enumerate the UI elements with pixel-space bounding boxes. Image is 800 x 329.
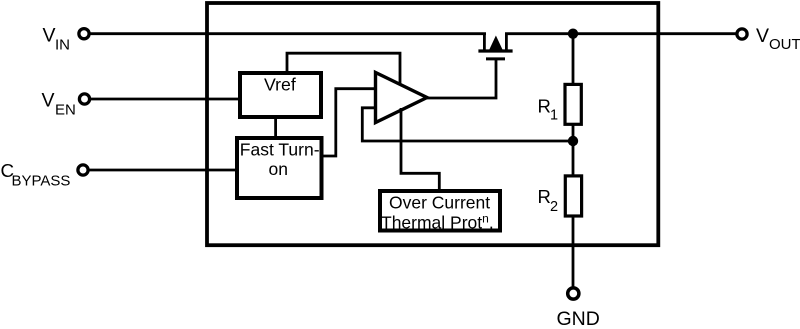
svg-text:Over Current: Over Current: [389, 193, 490, 213]
node VOUT junction dot: [568, 29, 578, 39]
wire op-amp output to gate: [425, 58, 496, 98]
resistor R2: [565, 176, 581, 216]
svg-text:V: V: [756, 25, 769, 47]
node feedback junction dot: [568, 136, 578, 146]
transistor Q1 PMOS pass element: [478, 33, 512, 59]
wire Vref to Fast Turn-on: [274, 117, 277, 140]
channel bar: [478, 49, 512, 52]
svg-text:R: R: [538, 96, 551, 117]
terminal VEN: [79, 94, 89, 104]
svg-text:EN: EN: [55, 101, 76, 118]
wire R2 to GND: [572, 216, 575, 288]
svg-text:2: 2: [550, 199, 558, 215]
wire CBYPASS: [88, 169, 237, 172]
body arrow: [489, 36, 503, 51]
wire VIN rail: [89, 32, 486, 35]
wire op-amp to over-current block: [401, 108, 439, 191]
block Over Current / Thermal Protection: [380, 191, 500, 231]
svg-text:on: on: [269, 159, 288, 179]
wire VOUT node to R1: [572, 34, 575, 85]
svg-text:Vref: Vref: [264, 75, 296, 95]
wire Fast Turn-on to op-amp upper input: [320, 89, 374, 156]
svg-text:R: R: [538, 186, 551, 207]
resistor R1: [565, 84, 581, 124]
svg-text:GND: GND: [557, 308, 600, 329]
svg-text:IN: IN: [55, 36, 70, 53]
terminal CBYPASS: [78, 165, 88, 175]
IC outer box: [207, 3, 658, 245]
svg-text:1: 1: [550, 108, 558, 124]
terminal VOUT: [737, 29, 747, 39]
drain tap: [505, 33, 508, 52]
wire R1 to feedback node: [572, 124, 575, 177]
svg-text:Thermal Protn.: Thermal Protn.: [381, 211, 494, 232]
block Fast Turn-on: [237, 138, 322, 198]
svg-text:V: V: [42, 89, 55, 111]
gate bar: [486, 57, 505, 60]
block Vref: [240, 73, 321, 117]
wire VEN: [90, 98, 241, 101]
wire VOUT rail: [505, 32, 736, 35]
wire Vref to op-amp noninverting input (over the top): [287, 53, 400, 86]
terminal GND: [568, 288, 579, 299]
wire feedback to op-amp inverting input: [362, 108, 573, 141]
svg-text:BYPASS: BYPASS: [12, 172, 71, 189]
svg-text:V: V: [43, 24, 56, 46]
source tap: [483, 33, 486, 52]
op-amp U1: [376, 73, 428, 123]
svg-text:Fast Turn-: Fast Turn-: [240, 140, 320, 160]
terminal VIN: [79, 29, 89, 39]
svg-text:OUT: OUT: [769, 36, 800, 53]
